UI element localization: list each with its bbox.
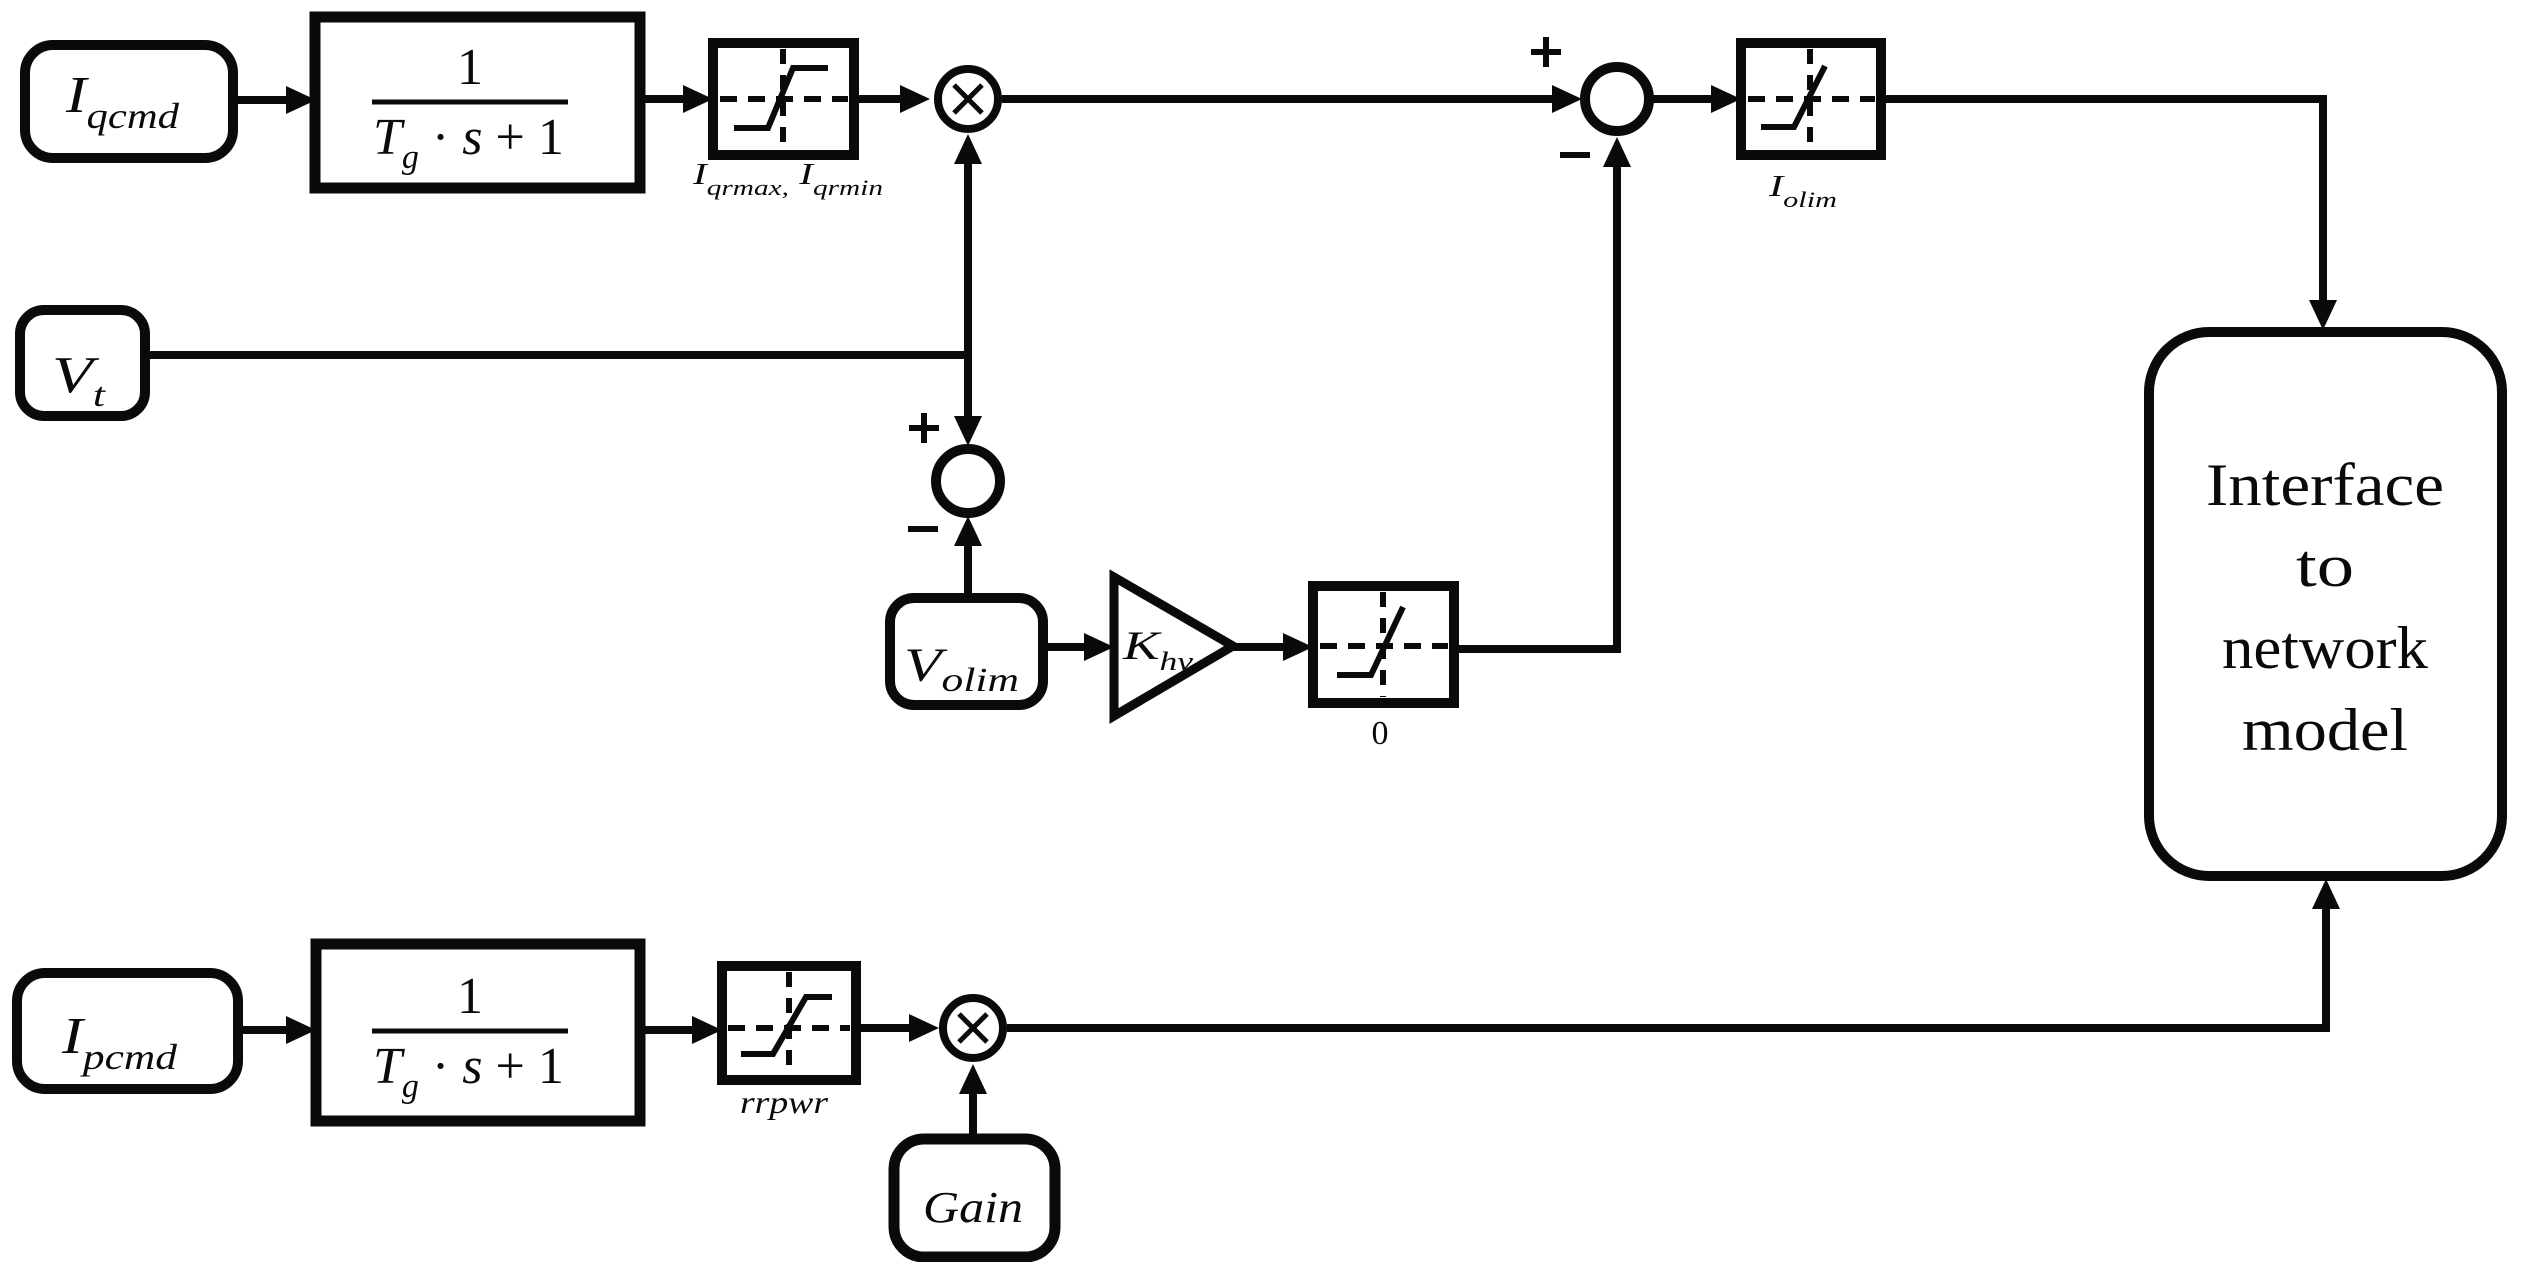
wire junction down to summer S1 with arrow xyxy=(954,355,982,446)
minus sign at summer S2 xyxy=(1560,152,1590,158)
wire TF2 to limiter L2 with arrow xyxy=(640,1016,722,1044)
gain block Khv (triangle) xyxy=(1114,577,1233,716)
svg-text:rrpwr: rrpwr xyxy=(740,1084,829,1120)
transfer-function block TF1 1/(Tg*s+1) xyxy=(315,17,640,188)
svg-text:1: 1 xyxy=(457,968,483,1025)
Interface to network model block xyxy=(2149,332,2502,876)
wire L3 up to S2 with arrow (minus input) xyxy=(1454,137,1631,649)
wire Khv to limiter L3 with arrow xyxy=(1233,633,1313,661)
svg-text:Tg · s + 1: Tg · s + 1 xyxy=(373,109,564,176)
wire M1 to summer S2 with arrow (plus input) xyxy=(1002,85,1582,113)
wire junction up to M1 with arrow xyxy=(954,134,982,355)
input block Iqcmd xyxy=(25,45,233,158)
wire L4 to Interface top with arrow xyxy=(1881,99,2337,330)
input block Gain xyxy=(894,1139,1055,1257)
svg-text:0: 0 xyxy=(1372,715,1389,752)
input block Ipcmd xyxy=(17,973,238,1089)
input block Vt xyxy=(20,310,145,416)
plus sign at summer S2 xyxy=(1531,37,1561,67)
limiter block L4 (Iolim limiter) xyxy=(1741,43,1881,155)
wire Gain up to M2 with arrow xyxy=(959,1064,987,1139)
summer S2 xyxy=(1585,67,1649,131)
wire Volim to gain Khv with arrow xyxy=(1043,633,1114,661)
summer S1 xyxy=(936,449,1000,513)
svg-text:network: network xyxy=(2222,615,2428,681)
wire TF1 to limiter L1 with arrow xyxy=(640,85,713,113)
svg-text:Interface: Interface xyxy=(2206,452,2444,518)
wire L1 to multiplier M1 with arrow xyxy=(854,85,930,113)
svg-text:to: to xyxy=(2296,533,2354,599)
wire Volim up to S1 with arrow (minus input) xyxy=(954,516,982,598)
transfer-function block TF2 1/(Tg*s+1) xyxy=(316,944,640,1121)
wire Vt horizontal to junction xyxy=(145,351,968,359)
plus sign at summer S1 xyxy=(909,413,939,443)
svg-text:Gain: Gain xyxy=(923,1183,1023,1232)
wire L2 to multiplier M2 with arrow xyxy=(856,1014,939,1042)
svg-text:model: model xyxy=(2242,697,2408,763)
wire Iqcmd to TF1 with arrow xyxy=(233,86,316,114)
minus sign at summer S1 xyxy=(908,526,938,532)
wire Ipcmd to TF2 with arrow xyxy=(238,1016,316,1044)
limiter block L3 (lower limit 0) xyxy=(1313,586,1454,703)
input block Volim xyxy=(890,598,1043,705)
wire S2 to limiter L4 with arrow xyxy=(1653,85,1741,113)
wire M2 to Interface bottom with arrow xyxy=(1007,879,2340,1028)
multiplier M1 (circle with X) xyxy=(938,69,998,129)
multiplier M2 (circle with X) xyxy=(943,998,1003,1058)
limiter block L1 (Iqrmax/Iqrmin rate limiter) xyxy=(713,43,854,155)
svg-text:1: 1 xyxy=(457,39,483,96)
limiter block L2 (rrpwr rate limiter) xyxy=(722,966,856,1080)
svg-text:Tg · s + 1: Tg · s + 1 xyxy=(373,1038,564,1105)
